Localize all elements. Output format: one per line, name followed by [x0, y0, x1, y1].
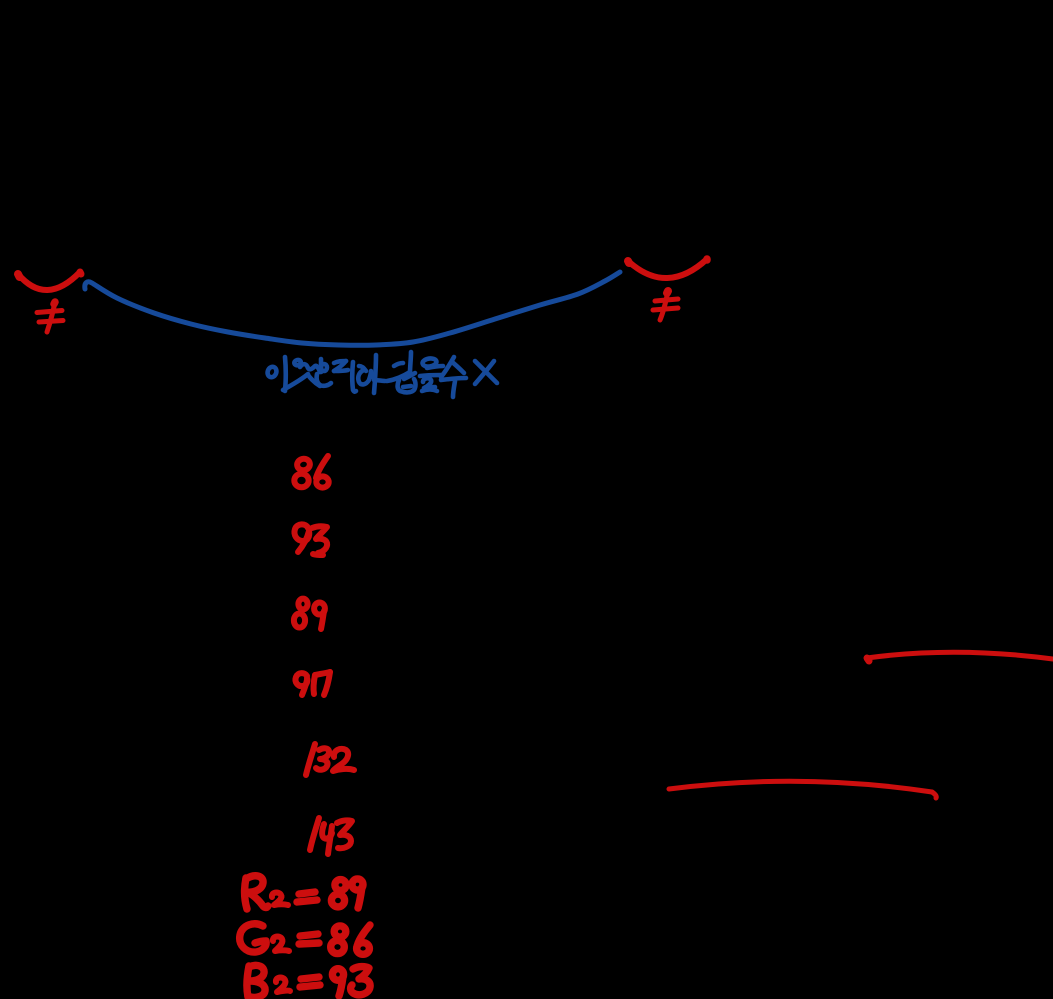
number 97	[295, 672, 330, 695]
syllable 수	[441, 357, 454, 377]
blue connecting curve	[85, 272, 620, 345]
syllable 한	[319, 359, 324, 372]
number 86	[294, 456, 328, 488]
left not-equal sign	[37, 302, 63, 332]
syllable 웃	[294, 359, 302, 366]
left red brace arc	[18, 272, 81, 290]
equation R2 = 89	[245, 876, 363, 909]
number 89	[294, 599, 325, 629]
red underline upper right	[867, 652, 1053, 661]
equation G2 = 86	[240, 924, 370, 954]
right red brace arc	[628, 259, 707, 278]
right not-equal sign	[653, 291, 678, 320]
syllable 이	[266, 366, 278, 379]
syllable 과	[359, 366, 366, 371]
red underline lower right	[669, 781, 936, 798]
number 132	[306, 744, 354, 775]
blue annotation text "이웃한집과 같을수 X"	[266, 352, 497, 397]
number 143	[310, 818, 352, 854]
number 93	[294, 524, 327, 555]
equation B2 = 98	[247, 965, 370, 997]
syllable 집	[334, 361, 346, 363]
syllable 을	[422, 358, 437, 368]
syllable 같	[394, 363, 403, 366]
X mark	[475, 361, 497, 383]
